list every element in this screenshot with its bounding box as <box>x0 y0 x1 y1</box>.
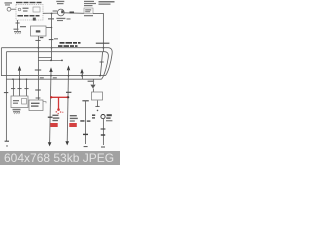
switch box inner mark <box>36 30 41 32</box>
end bar x6 <box>5 140 9 142</box>
thick tick x103 y135 <box>101 134 105 136</box>
wire left into switch box <box>46 27 52 29</box>
up arrow x68.5 <box>67 65 70 70</box>
red highlight label x68.5 <box>69 123 77 127</box>
diode box <box>92 92 103 100</box>
tick x103 y129 <box>101 128 106 130</box>
wire color text x68.5 <box>70 115 78 122</box>
ignition switch <box>57 9 64 16</box>
red speckle text <box>56 111 64 114</box>
node dot <box>51 27 53 29</box>
inner coil box <box>22 99 27 105</box>
tick x13 <box>11 88 15 90</box>
connector tick on ground lead <box>16 22 20 24</box>
label <box>88 81 95 82</box>
red node left <box>50 96 52 98</box>
node dot on outer rail <box>51 47 53 49</box>
up arrow x19.5 <box>18 66 21 71</box>
ECM stub <box>43 102 46 104</box>
node dot at red junction x68.5 <box>67 96 69 98</box>
wire fuse box to ignition switch <box>43 12 58 14</box>
connector tick x38 y90 <box>35 89 41 91</box>
node dot at rail <box>103 47 105 49</box>
E label left of ring <box>92 114 95 118</box>
tick x26.5 <box>24 88 28 90</box>
thick tick x85.5 <box>83 133 88 135</box>
fuse element at box bottom <box>33 18 36 21</box>
page background <box>0 0 120 151</box>
wire x103 down <box>102 119 104 145</box>
ignition switch text above <box>56 1 64 4</box>
branch wire y57 <box>38 56 51 58</box>
long wire x51 down <box>50 71 51 143</box>
wire label below rail x38 <box>40 77 44 78</box>
wire label right of x51 <box>54 38 58 39</box>
connector tick x6 <box>4 92 8 94</box>
right small box text <box>85 9 91 12</box>
outer harness loop <box>1 48 112 76</box>
node dot x51 rail <box>50 75 52 77</box>
battery B+ terminal <box>7 7 11 11</box>
connector tick on x51 <box>49 39 54 41</box>
connector tick x38 y98 <box>36 97 41 99</box>
wire x82 to rails <box>81 73 83 80</box>
fuse label text <box>23 8 29 12</box>
tick x51 y118 <box>48 116 53 118</box>
connector tick x38 y70 <box>35 69 41 71</box>
node dot x100 <box>99 75 101 77</box>
ground lead under fuse box <box>17 20 19 31</box>
relay text <box>13 100 19 104</box>
right connector label text <box>84 1 96 6</box>
caption bar <box>0 151 120 165</box>
node terminal dot y60 end <box>61 60 63 62</box>
ECM text <box>31 103 40 107</box>
red arrow end <box>57 108 60 111</box>
wire label <box>70 12 75 14</box>
svg-text:604x768 53kb JPEG: 604x768 53kb JPEG <box>4 151 114 165</box>
ground label text G201 <box>14 26 27 30</box>
tick x68.5 y93 <box>66 91 71 93</box>
wire x13 into left relay box <box>12 79 14 96</box>
wire to diode box <box>92 89 94 92</box>
wire color text x51 <box>52 115 59 122</box>
wire label below <box>48 18 71 19</box>
switch component box <box>31 26 47 36</box>
ground G201 symbol <box>14 31 21 33</box>
left relay box <box>11 96 28 108</box>
bus label text row 2 <box>58 45 78 47</box>
end bar x85.5 <box>84 146 88 148</box>
fuse box inner text row <box>18 15 40 17</box>
up arrow x51 <box>49 67 52 72</box>
wire below diode box <box>97 101 99 108</box>
connector label near x85.5 <box>80 120 90 122</box>
top right title text <box>99 1 115 5</box>
node junction dot at x51 <box>51 13 53 15</box>
fuse box (underhood fuse/relay box) <box>16 5 43 20</box>
tick x100 <box>100 61 104 63</box>
node dot y60 x51 <box>50 60 52 62</box>
wire down right side x97 <box>102 14 104 52</box>
wire x19.5 down <box>19 70 21 96</box>
ignition switch text below <box>56 18 65 21</box>
ground label under box <box>13 109 21 111</box>
wire x100 between rails <box>100 52 102 76</box>
inner harness loop <box>6 52 108 79</box>
end dot <box>97 110 99 112</box>
wire label below rail x51 <box>53 77 57 78</box>
connector crossbar on x97 <box>96 42 110 44</box>
node dot x82 rail <box>81 75 83 77</box>
up arrow x82 <box>80 69 83 74</box>
node dots on inner rail <box>12 78 14 80</box>
down arrow x51 bottom <box>48 142 52 146</box>
T connector x85.5 <box>82 100 88 102</box>
right drop from inner rail <box>92 79 94 84</box>
fuse box heading text <box>16 2 42 3</box>
down arrow x68.5 bottom <box>65 141 69 145</box>
red trace horizontal <box>51 96 69 98</box>
node dot x38 outer rail <box>38 47 40 49</box>
B label right of ring <box>106 114 112 119</box>
red trace vertical <box>58 97 60 108</box>
wire right box to vertical <box>93 13 104 15</box>
wire ignition switch to right box <box>64 12 84 15</box>
bus label text row 1 <box>60 42 81 44</box>
ECM box <box>29 100 43 111</box>
tick <box>95 105 99 107</box>
left branch wire x6 down <box>5 79 7 141</box>
ground G101 symbol <box>13 111 20 113</box>
wire x85.5 down <box>85 101 87 144</box>
wire label above <box>53 10 58 11</box>
right small box <box>84 8 93 14</box>
connector tick x38 y40 <box>35 39 40 41</box>
relay box inside fuse box <box>33 7 40 12</box>
down triangle connector <box>90 85 95 89</box>
wire x51 down from junction <box>51 14 53 28</box>
label under right box <box>84 15 93 16</box>
node dot x68.5 rail <box>68 75 70 77</box>
tick x19.5 <box>17 88 21 90</box>
red highlight label x51 <box>50 123 57 127</box>
battery label text <box>5 2 13 5</box>
end bar x103 <box>101 146 105 148</box>
ring connector <box>101 115 105 119</box>
stub label <box>40 37 44 38</box>
red node right <box>67 96 69 98</box>
wire battery to fuse box <box>11 8 16 10</box>
fuse F1 symbol <box>18 8 21 11</box>
underline under B label <box>106 120 112 122</box>
branch wire y60 <box>38 59 62 61</box>
wire x26.5 into left relay box <box>26 79 28 96</box>
end dot <box>6 145 7 146</box>
wire from switch box bottom x38 <box>37 36 39 100</box>
long wire x68.5 down <box>67 69 68 142</box>
wire x51 down through rails <box>51 28 53 62</box>
